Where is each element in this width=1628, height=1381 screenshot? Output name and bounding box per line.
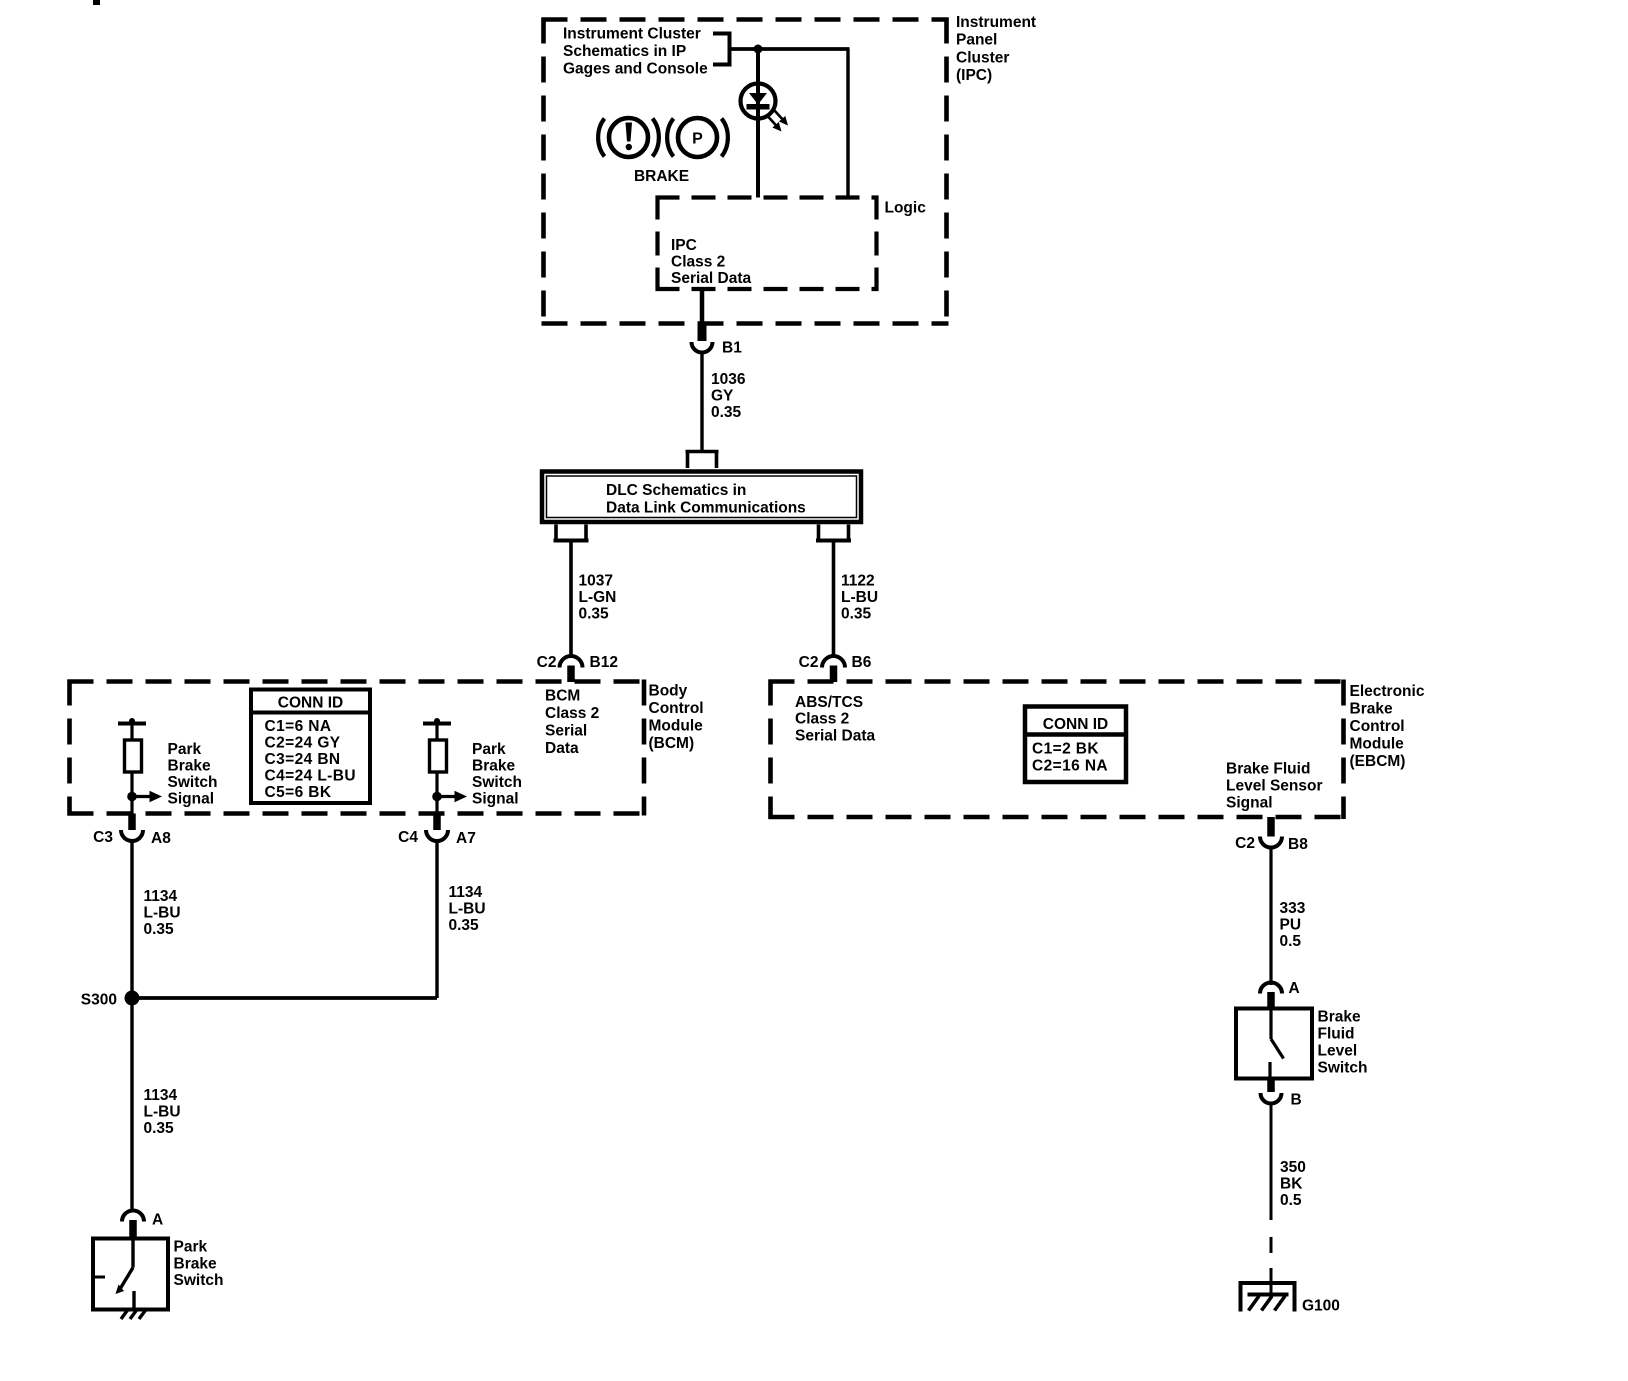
node junction arrow 2 <box>432 791 467 803</box>
reference box DLC Schematics in Data Link Communications <box>542 472 861 523</box>
connector C2/B6 arc at EBCM <box>822 656 845 682</box>
svg-text:Body: Body <box>649 683 688 700</box>
svg-text:Signal: Signal <box>1226 795 1273 812</box>
svg-text:S300: S300 <box>81 992 117 1009</box>
svg-text:(EBCM): (EBCM) <box>1350 753 1406 770</box>
svg-text:(IPC): (IPC) <box>956 67 992 84</box>
label Brake Fluid Level Switch <box>1318 1009 1368 1077</box>
svg-text:BRAKE: BRAKE <box>634 168 689 185</box>
svg-text:1134: 1134 <box>144 888 178 905</box>
svg-text:Switch: Switch <box>174 1272 224 1289</box>
svg-text:Data Link Communications: Data Link Communications <box>606 500 806 517</box>
BRAKE indicator LED lamp <box>741 84 776 119</box>
svg-text:Serial Data: Serial Data <box>671 270 752 287</box>
svg-text:A: A <box>152 1212 163 1229</box>
svg-text:A7: A7 <box>456 830 476 847</box>
svg-text:C2=16 NA: C2=16 NA <box>1032 758 1108 775</box>
svg-text:Park: Park <box>174 1239 208 1256</box>
svg-text:1037: 1037 <box>579 573 613 590</box>
svg-text:1134: 1134 <box>144 1087 178 1104</box>
svg-text:Switch: Switch <box>168 774 218 791</box>
svg-text:B6: B6 <box>852 654 872 671</box>
svg-text:Serial Data: Serial Data <box>795 728 876 745</box>
label Electronic Brake Control Module (EBCM) <box>1350 683 1425 770</box>
wire 333 PU 0.5 <box>1269 848 1272 986</box>
svg-text:C2=24 GY: C2=24 GY <box>265 735 341 752</box>
svg-text:C5=6 BK: C5=6 BK <box>265 784 332 801</box>
svg-text:Module: Module <box>649 718 704 735</box>
wire label 1134 L-BU 0.35 left <box>144 888 181 938</box>
svg-text:B12: B12 <box>590 654 618 671</box>
svg-text:0.35: 0.35 <box>579 606 610 623</box>
svg-text:Instrument: Instrument <box>956 14 1036 31</box>
wire label 1036 GY 0.35 <box>711 371 746 421</box>
conn id table EBCM <box>1025 707 1126 783</box>
svg-text:Panel: Panel <box>956 32 997 49</box>
svg-text:0.35: 0.35 <box>841 606 872 623</box>
connector B <box>1261 1079 1282 1104</box>
wire label 1037 L-GN 0.35 <box>579 573 617 623</box>
svg-text:C1=2 BK: C1=2 BK <box>1032 741 1099 758</box>
module box BCM (Body Control Module) dashed outline <box>68 680 647 816</box>
wire 1122 L-BU 0.35 <box>832 543 836 656</box>
svg-text:Class 2: Class 2 <box>545 705 599 722</box>
svg-text:Brake: Brake <box>472 758 515 775</box>
svg-text:A8: A8 <box>151 830 171 847</box>
label Park Brake Switch <box>174 1239 224 1290</box>
svg-text:CONN ID: CONN ID <box>1043 716 1108 733</box>
svg-text:1036: 1036 <box>711 371 746 388</box>
svg-text:Brake: Brake <box>1318 1009 1361 1026</box>
svg-text:Level: Level <box>1318 1043 1358 1060</box>
ground hatching below park brake switch <box>121 1310 146 1320</box>
svg-text:BK: BK <box>1280 1176 1303 1193</box>
svg-text:BCM: BCM <box>545 688 580 705</box>
label Brake Fluid Level Sensor Signal <box>1226 761 1323 812</box>
dashed wire to G100 <box>1270 1237 1273 1296</box>
svg-text:Logic: Logic <box>885 200 927 217</box>
connector C2/B12 arc at BCM <box>560 656 583 682</box>
svg-text:Cluster: Cluster <box>956 49 1009 66</box>
svg-text:B8: B8 <box>1288 836 1308 853</box>
node junction above lamp <box>754 45 763 54</box>
wire 350 BK 0.5 <box>1270 1103 1273 1220</box>
switch box Brake Fluid Level Switch <box>1236 1009 1312 1079</box>
svg-text:0.35: 0.35 <box>144 1120 175 1137</box>
svg-text:Level Sensor: Level Sensor <box>1226 778 1323 795</box>
wire label 1134 L-BU 0.35 lower <box>144 1087 181 1137</box>
svg-text:333: 333 <box>1280 900 1306 917</box>
svg-text:L-BU: L-BU <box>144 905 181 922</box>
svg-text:B: B <box>1291 1092 1302 1109</box>
svg-text:Electronic: Electronic <box>1350 683 1425 700</box>
LED light arrows <box>768 111 788 132</box>
svg-text:1134: 1134 <box>449 884 483 901</box>
label Park Brake Switch Signal 2 <box>472 741 522 808</box>
wire 1134 L-BU 0.35 (C4 branch) <box>132 841 437 998</box>
svg-text:Gages and Console: Gages and Console <box>563 61 708 78</box>
pull-up resistor 1 (park brake switch input) <box>118 718 146 814</box>
svg-text:C2: C2 <box>799 654 819 671</box>
svg-text:Signal: Signal <box>472 791 519 808</box>
svg-text:PU: PU <box>1280 917 1302 934</box>
label BCM Class 2 Serial Data <box>545 688 599 758</box>
svg-text:1122: 1122 <box>841 573 875 590</box>
svg-text:Signal: Signal <box>168 791 215 808</box>
svg-text:0.35: 0.35 <box>144 921 175 938</box>
logic box dashed outline <box>656 196 879 292</box>
svg-text:DLC Schematics in: DLC Schematics in <box>606 482 746 499</box>
svg-text:Serial: Serial <box>545 723 587 740</box>
svg-text:L-BU: L-BU <box>449 901 486 918</box>
module box IPC (Instrument Panel Cluster) dashed outline <box>542 18 949 326</box>
connector C4/A7 <box>426 814 448 842</box>
ground G100 <box>1239 1283 1297 1312</box>
svg-text:Module: Module <box>1350 736 1405 753</box>
label Instrument Panel Cluster (IPC) <box>956 14 1036 84</box>
splice S300 <box>125 991 140 1006</box>
svg-text:C1=6 NA: C1=6 NA <box>265 718 332 735</box>
svg-text:Instrument Cluster: Instrument Cluster <box>563 26 701 43</box>
wire right branch down to logic <box>846 49 849 198</box>
wire 1134 L-BU 0.35 (S300 to park brake switch) <box>130 998 133 1210</box>
label Park Brake Switch Signal 1 <box>168 741 218 808</box>
svg-text:Switch: Switch <box>472 774 522 791</box>
wire logic to B1 <box>700 289 705 325</box>
page tick mark <box>93 0 100 5</box>
svg-text:G100: G100 <box>1302 1298 1340 1315</box>
svg-text:B1: B1 <box>722 340 742 357</box>
svg-text:Control: Control <box>1350 718 1405 735</box>
svg-text:Fluid: Fluid <box>1318 1026 1355 1043</box>
DLC box bottom-left terminal <box>554 525 589 541</box>
svg-text:GY: GY <box>711 388 734 405</box>
svg-text:Park: Park <box>472 741 506 758</box>
wire 1134 L-BU 0.35 (C3 to S300) <box>130 841 133 998</box>
wire label 350 BK 0.5 <box>1280 1159 1306 1209</box>
svg-text:C4=24 L-BU: C4=24 L-BU <box>265 768 356 785</box>
svg-text:0.35: 0.35 <box>711 404 742 421</box>
svg-text:C2: C2 <box>537 654 557 671</box>
svg-text:Class 2: Class 2 <box>795 711 849 728</box>
svg-text:L-GN: L-GN <box>579 589 617 606</box>
label ABS/TCS Class 2 Serial Data <box>795 694 876 745</box>
switch box Park Brake Switch <box>93 1239 168 1310</box>
label Body Control Module (BCM) <box>649 683 704 753</box>
wire 1037 L-GN 0.35 <box>569 543 573 656</box>
node junction arrow 1 <box>127 791 162 803</box>
connector C3/A8 <box>121 814 143 842</box>
connector C2/B8 <box>1260 817 1282 848</box>
telltale icon brake warning (!) <box>598 118 659 157</box>
connector A at park brake switch <box>122 1211 144 1240</box>
pull-up resistor 2 (park brake switch input) <box>423 718 451 814</box>
wire label 1134 L-BU 0.35 right <box>449 884 486 934</box>
connector B1 female cup <box>692 342 713 353</box>
svg-text:ABS/TCS: ABS/TCS <box>795 694 863 711</box>
wire label 333 PU 0.5 <box>1280 900 1306 950</box>
bracket to note <box>713 34 730 65</box>
wire down to BRAKE lamp and logic <box>756 49 760 198</box>
svg-text:Brake: Brake <box>1350 701 1393 718</box>
switch contacts brake fluid level <box>1270 1009 1284 1079</box>
svg-text:Brake Fluid: Brake Fluid <box>1226 761 1310 778</box>
telltale icon park brake (P) <box>667 118 728 157</box>
svg-text:Switch: Switch <box>1318 1060 1368 1077</box>
svg-text:L-BU: L-BU <box>841 589 878 606</box>
svg-text:IPC: IPC <box>671 237 697 254</box>
svg-text:L-BU: L-BU <box>144 1104 181 1121</box>
svg-text:Class 2: Class 2 <box>671 254 725 271</box>
connector A at brake fluid level switch <box>1260 983 1282 1010</box>
connector pin B1 male stub <box>698 325 707 341</box>
svg-text:P: P <box>692 131 703 148</box>
DLC box bottom-right terminal <box>816 525 851 541</box>
svg-text:C2: C2 <box>1235 835 1255 852</box>
svg-text:A: A <box>1289 980 1300 997</box>
label IPC Class 2 Serial Data <box>671 237 752 287</box>
wire label 1122 L-BU 0.35 <box>841 573 878 623</box>
svg-text:0.5: 0.5 <box>1280 1192 1302 1209</box>
svg-text:Brake: Brake <box>168 758 211 775</box>
conn id table BCM <box>251 690 370 804</box>
svg-text:Control: Control <box>649 700 704 717</box>
svg-text:(BCM): (BCM) <box>649 735 695 752</box>
wire 1036 GY 0.35 <box>700 353 703 452</box>
svg-text:0.5: 0.5 <box>1280 933 1302 950</box>
svg-text:C3: C3 <box>93 829 113 846</box>
svg-text:350: 350 <box>1280 1159 1306 1176</box>
note Instrument Cluster Schematics in IP Gages and Console <box>563 26 708 78</box>
svg-text:C4: C4 <box>398 829 418 846</box>
svg-text:Schematics in IP: Schematics in IP <box>563 43 686 60</box>
wire from bracket to right branch <box>730 47 850 51</box>
svg-text:0.35: 0.35 <box>449 917 480 934</box>
DLC box top terminal <box>686 452 719 469</box>
svg-text:Data: Data <box>545 740 579 757</box>
svg-text:Brake: Brake <box>174 1256 217 1273</box>
module box EBCM (Electronic Brake Control Module) dashed outline <box>769 680 1346 820</box>
svg-text:Park: Park <box>168 741 202 758</box>
svg-text:C3=24 BN: C3=24 BN <box>265 751 341 768</box>
switch contacts park brake <box>93 1239 134 1310</box>
svg-text:CONN ID: CONN ID <box>278 695 343 712</box>
